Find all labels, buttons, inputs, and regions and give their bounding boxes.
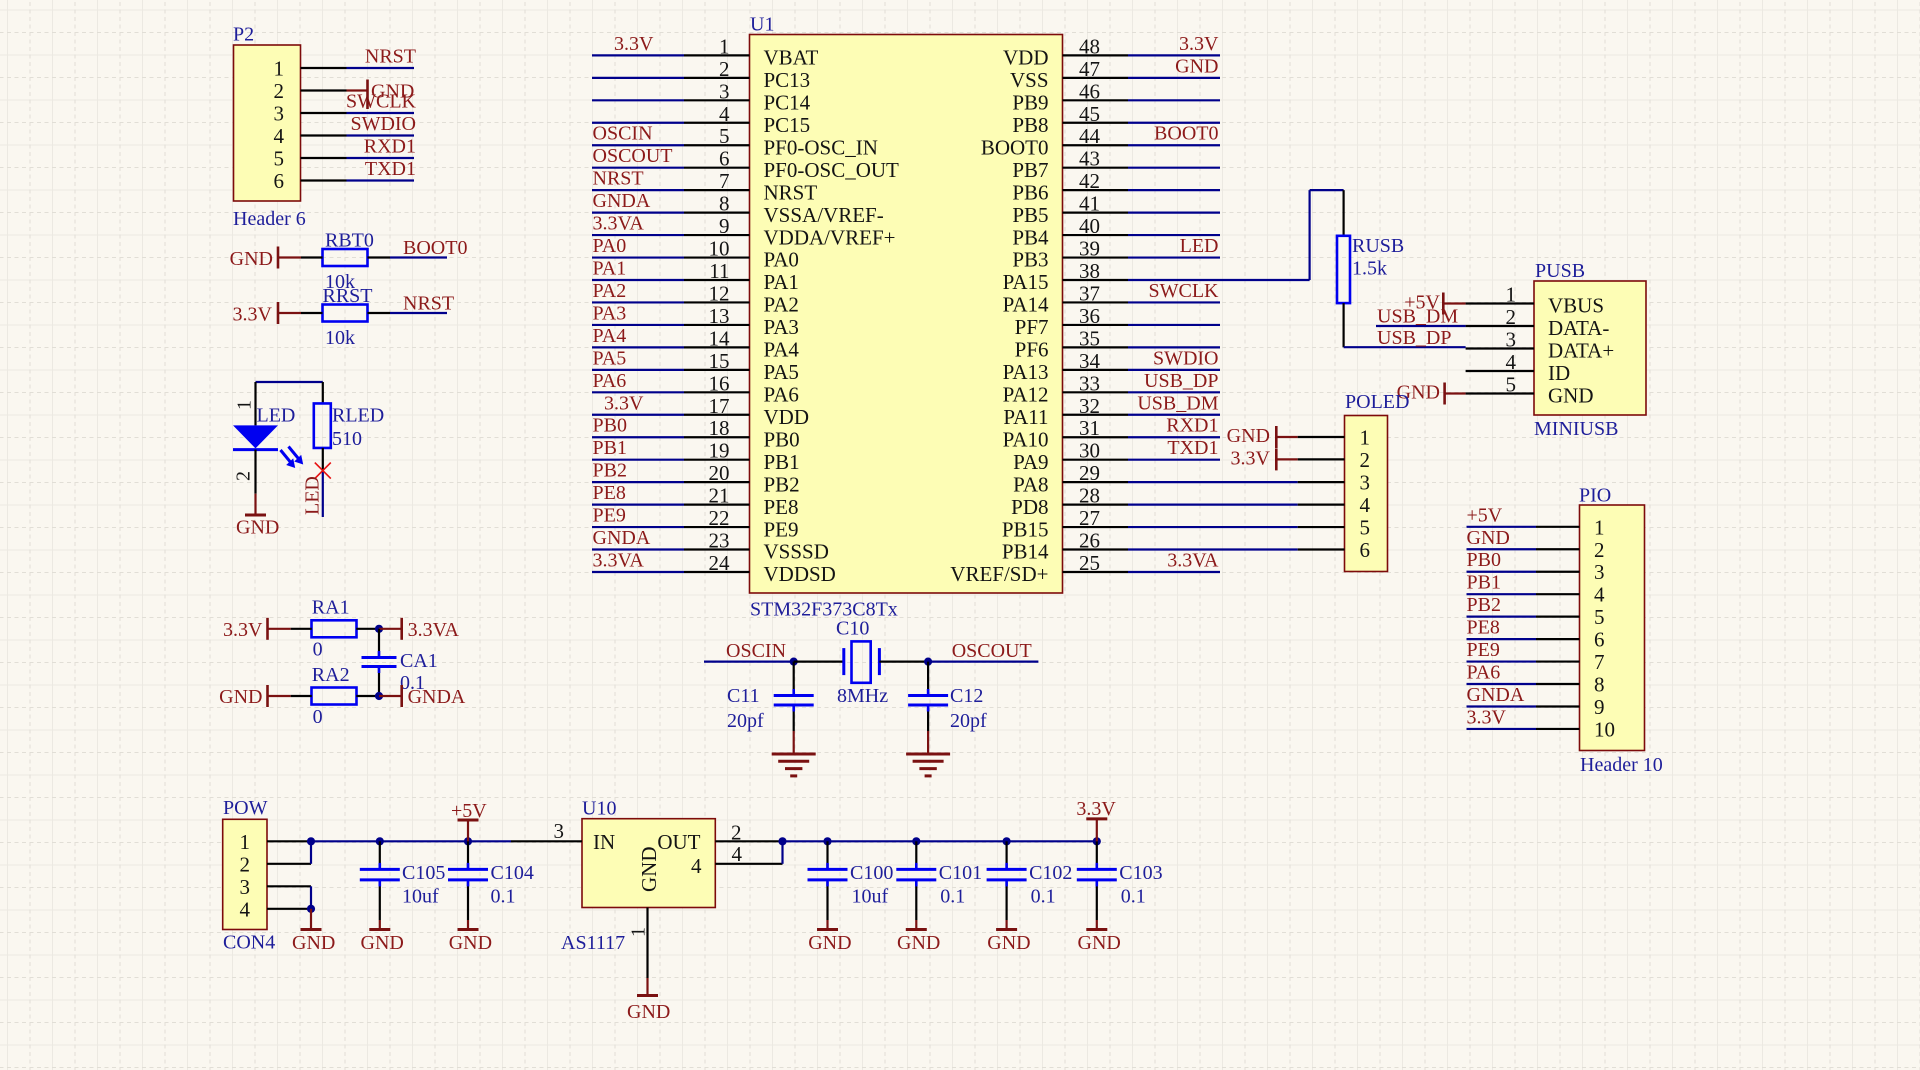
- svg-text:5: 5: [1360, 516, 1371, 540]
- power 3.3V at POLED pin 2: [1231, 448, 1345, 471]
- wire U1 pin 44 net BOOT0: [1063, 123, 1221, 146]
- wire OSCIN: [704, 640, 798, 666]
- wire PIO pin 7 net PE9: [1467, 639, 1580, 662]
- svg-text:PA1: PA1: [593, 258, 627, 280]
- wire U1 pin 7 net NRST: [592, 168, 750, 191]
- wire U1 pin 15 net PA5: [592, 347, 750, 370]
- svg-text:PA5: PA5: [593, 347, 627, 369]
- wire RUSB to USB_DP: [1344, 303, 1466, 347]
- wire U1 pin 4: [592, 122, 750, 124]
- svg-text:2: 2: [274, 79, 285, 103]
- capacitor CA1 0.1: [362, 629, 438, 696]
- svg-text:PB1: PB1: [593, 437, 627, 459]
- power port GNDA: [402, 685, 466, 708]
- svg-text:VDD: VDD: [764, 405, 810, 429]
- wire U1 pin 6 net OSCOUT: [592, 145, 750, 168]
- svg-text:0: 0: [313, 706, 323, 728]
- svg-text:4: 4: [1594, 583, 1605, 607]
- wire U1 pin 24 net 3.3VA: [592, 549, 750, 572]
- svg-text:PE9: PE9: [593, 505, 626, 527]
- svg-text:20pf: 20pf: [950, 710, 987, 732]
- resistor RA1 0: [312, 597, 357, 661]
- svg-text:P2: P2: [233, 24, 254, 46]
- svg-text:RLED: RLED: [332, 405, 384, 427]
- resistor RRST 10k: [323, 285, 373, 349]
- svg-text:PA14: PA14: [1003, 293, 1049, 317]
- ground GND at C104: [449, 930, 492, 955]
- resistor RA2 0: [312, 664, 357, 728]
- svg-text:U10: U10: [582, 798, 616, 820]
- svg-text:3.3VA: 3.3VA: [408, 619, 460, 641]
- svg-text:C103: C103: [1119, 862, 1162, 884]
- ground GND at C101: [897, 930, 940, 955]
- svg-text:PB0: PB0: [593, 415, 627, 437]
- svg-text:BOOT0: BOOT0: [981, 135, 1049, 159]
- wire U1 pin 21 net PE8: [592, 482, 750, 505]
- wire U10 pin 4: [715, 837, 786, 866]
- mcu U1 STM32F373C8Tx body: [709, 14, 1101, 621]
- svg-text:PA0: PA0: [593, 235, 627, 257]
- svg-text:PB4: PB4: [1012, 225, 1049, 249]
- connector PUSB MINIUSB body: [1506, 260, 1647, 440]
- wire POW pins 1-2 to +5V rail: [267, 837, 511, 864]
- wire U1 pin 5 net OSCIN: [592, 123, 750, 146]
- svg-text:PE8: PE8: [1467, 617, 1500, 639]
- svg-text:VSS: VSS: [1010, 68, 1049, 92]
- wire U10 OUT pin 2: [715, 821, 781, 845]
- svg-text:PE9: PE9: [1467, 639, 1500, 661]
- svg-text:5: 5: [274, 147, 285, 171]
- capacitor C11 20pf: [727, 662, 814, 753]
- svg-text:C11: C11: [727, 685, 760, 707]
- connector PIO (Header 10) body: [1579, 485, 1663, 777]
- svg-text:PA10: PA10: [1003, 427, 1049, 451]
- wire U1 pin 11 net PA1: [592, 258, 750, 281]
- svg-text:3.3V: 3.3V: [1231, 448, 1271, 470]
- svg-text:NRST: NRST: [764, 180, 818, 204]
- wire U1 pin 17 net 3.3V: [592, 392, 750, 415]
- svg-text:PA4: PA4: [593, 325, 627, 347]
- svg-text:0.1: 0.1: [1031, 886, 1056, 908]
- wire U1 pin 18 net PB0: [592, 415, 750, 438]
- svg-text:GND: GND: [371, 81, 414, 103]
- svg-text:9: 9: [1594, 695, 1605, 719]
- capacitor C101 0.1: [896, 837, 982, 929]
- wire PIO pin 9 net GNDA: [1467, 684, 1580, 707]
- ground GND at PUSB pin 5: [1397, 382, 1534, 405]
- svg-text:2: 2: [240, 852, 251, 876]
- svg-text:GND: GND: [230, 248, 273, 270]
- svg-text:PB3: PB3: [1012, 248, 1048, 272]
- svg-text:PF6: PF6: [1015, 338, 1049, 362]
- svg-text:VSSA/VREF-: VSSA/VREF-: [764, 203, 884, 227]
- svg-text:PB14: PB14: [1002, 540, 1049, 564]
- svg-text:GNDA: GNDA: [593, 527, 651, 549]
- ground GND at U10 pin 1: [627, 908, 670, 1024]
- ground GND at POLED pin 1: [1227, 425, 1345, 448]
- svg-text:PB2: PB2: [1467, 594, 1501, 616]
- wire P2 pin 1 net NRST: [301, 46, 417, 69]
- svg-text:PA0: PA0: [764, 248, 799, 272]
- svg-text:PE8: PE8: [764, 495, 799, 519]
- wire PIO pin 5 net PB2: [1467, 594, 1580, 617]
- svg-text:VDDSD: VDDSD: [764, 562, 836, 586]
- svg-text:GND: GND: [361, 932, 404, 954]
- wire U1 pin 16 net PA6: [592, 370, 750, 393]
- svg-text:VDD: VDD: [1003, 46, 1049, 70]
- svg-text:PB2: PB2: [764, 472, 800, 496]
- svg-text:2: 2: [233, 471, 255, 481]
- svg-text:SWDIO: SWDIO: [1153, 347, 1219, 369]
- svg-text:NRST: NRST: [365, 46, 416, 68]
- wire USB_DM to PUSB pin 2: [1376, 305, 1534, 327]
- svg-text:C102: C102: [1029, 862, 1072, 884]
- svg-text:RA2: RA2: [312, 664, 350, 686]
- svg-text:3: 3: [240, 875, 251, 899]
- svg-text:OSCOUT: OSCOUT: [593, 145, 673, 167]
- ground GND on P2 pin 2: [301, 80, 415, 110]
- svg-text:ID: ID: [1548, 361, 1570, 385]
- svg-text:3: 3: [1360, 471, 1371, 495]
- svg-text:PA2: PA2: [593, 280, 627, 302]
- svg-text:PA1: PA1: [764, 270, 799, 294]
- svg-text:GND: GND: [236, 517, 279, 539]
- wire U1 pin 20 net PB2: [592, 460, 750, 483]
- wire U1 pin 42: [1063, 189, 1221, 191]
- svg-text:10uf: 10uf: [402, 886, 439, 908]
- svg-text:POW: POW: [223, 797, 268, 819]
- svg-text:RXD1: RXD1: [1166, 415, 1218, 437]
- capacitor C104 0.1: [448, 837, 534, 929]
- svg-text:PC13: PC13: [764, 68, 811, 92]
- svg-text:VSSSD: VSSSD: [764, 540, 829, 564]
- svg-text:3: 3: [1594, 560, 1605, 584]
- pin PUSB 4 ID stub: [1466, 370, 1534, 372]
- svg-text:LED: LED: [257, 405, 296, 427]
- wire LED top loop: [256, 382, 323, 425]
- svg-text:1: 1: [1594, 515, 1605, 539]
- svg-text:PC14: PC14: [764, 91, 811, 115]
- svg-text:10uf: 10uf: [852, 886, 889, 908]
- wire OSCOUT: [924, 640, 1038, 666]
- wire RLED to net LED with no-ERC mark: [302, 448, 331, 517]
- svg-text:0.1: 0.1: [491, 886, 516, 908]
- wire U1 pin 1 net 3.3V: [592, 33, 750, 56]
- svg-text:PB2: PB2: [593, 460, 627, 482]
- wire U1 pin 2: [592, 77, 750, 79]
- power +5V at C104: [451, 800, 487, 841]
- power 3.3V at C103: [1076, 798, 1116, 841]
- svg-text:PIO: PIO: [1579, 485, 1611, 507]
- svg-text:2: 2: [1594, 538, 1605, 562]
- svg-text:3.3V: 3.3V: [604, 392, 644, 414]
- svg-text:PA6: PA6: [1467, 662, 1501, 684]
- svg-text:OSCIN: OSCIN: [726, 640, 786, 662]
- power +5V at PUSB pin 1: [1404, 292, 1534, 315]
- svg-text:RBT0: RBT0: [325, 230, 374, 252]
- svg-text:C10: C10: [836, 618, 869, 640]
- wire PIO pin 10 net 3.3V: [1467, 706, 1580, 729]
- svg-text:GND: GND: [449, 932, 492, 954]
- wire PIO pin 4 net PB1: [1467, 572, 1580, 595]
- wire U1 pin 23 net GNDA: [592, 527, 750, 550]
- svg-text:GND: GND: [627, 1001, 670, 1023]
- svg-text:1: 1: [1360, 426, 1371, 450]
- svg-text:NRST: NRST: [593, 168, 644, 190]
- ground GND at RA2: [219, 685, 291, 708]
- svg-text:8MHz: 8MHz: [837, 685, 888, 707]
- svg-text:GND: GND: [1548, 384, 1594, 408]
- wire U1 pin 48 net 3.3V: [1063, 33, 1221, 56]
- regulator U10 AS1117 body: [561, 798, 715, 955]
- svg-text:USB_DP: USB_DP: [1377, 327, 1451, 349]
- wire RBT0 to BOOT0: [301, 256, 447, 258]
- capacitor C105 10uf: [360, 837, 446, 929]
- svg-text:PUSB: PUSB: [1535, 260, 1585, 282]
- wire P2 pin 4 net SWDIO: [301, 113, 417, 136]
- svg-text:4: 4: [732, 842, 743, 866]
- svg-text:PB0: PB0: [1467, 549, 1501, 571]
- wire 3.3V output rail: [783, 840, 1097, 842]
- svg-text:GND: GND: [1467, 527, 1510, 549]
- svg-text:IN: IN: [593, 830, 615, 854]
- svg-text:5: 5: [1594, 605, 1605, 629]
- wire U1 pin 43: [1063, 167, 1221, 169]
- svg-text:GNDA: GNDA: [408, 686, 466, 708]
- power port 3.3VA: [402, 618, 460, 641]
- wire U1 pin 36: [1063, 324, 1221, 326]
- ground GND at RBT0: [230, 247, 301, 271]
- wire U1 pin 30 net TXD1: [1063, 437, 1221, 460]
- svg-text:CA1: CA1: [400, 650, 438, 672]
- svg-text:DATA-: DATA-: [1548, 316, 1609, 340]
- ground GND at LED cathode: [236, 450, 279, 539]
- connector POW CON4 body: [223, 797, 276, 954]
- connector P2 (Header 6): [233, 24, 306, 231]
- wire U1 pin 25 net 3.3VA: [1063, 549, 1221, 572]
- svg-text:PA9: PA9: [1013, 450, 1048, 474]
- svg-text:C104: C104: [491, 862, 534, 884]
- svg-text:3: 3: [554, 819, 565, 843]
- ground GND at C103: [1078, 930, 1121, 955]
- svg-text:7: 7: [1594, 650, 1605, 674]
- svg-text:STM32F373C8Tx: STM32F373C8Tx: [750, 599, 898, 621]
- wire U1 pin 33 net USB_DP: [1063, 370, 1221, 393]
- svg-text:PA3: PA3: [764, 315, 799, 339]
- svg-text:20pf: 20pf: [727, 710, 764, 732]
- svg-text:4: 4: [1360, 493, 1371, 517]
- svg-text:+5V: +5V: [1467, 504, 1503, 526]
- wire U1 pin 31 net RXD1: [1063, 415, 1221, 438]
- wire U1 pin 46: [1063, 99, 1221, 101]
- svg-text:GNDA: GNDA: [593, 190, 651, 212]
- svg-text:GND: GND: [897, 932, 940, 954]
- svg-text:2: 2: [731, 821, 742, 845]
- connector POLED body: [1345, 391, 1410, 572]
- svg-text:PB5: PB5: [1012, 203, 1048, 227]
- svg-text:PA15: PA15: [1003, 270, 1049, 294]
- wire PIO pin 6 net PE8: [1467, 617, 1580, 640]
- svg-text:3.3V: 3.3V: [614, 33, 654, 55]
- wire U1 pin 22 net PE9: [592, 505, 750, 528]
- svg-text:VBUS: VBUS: [1548, 294, 1604, 318]
- svg-text:LED: LED: [302, 476, 324, 515]
- svg-text:RUSB: RUSB: [1352, 235, 1404, 257]
- wire RA1 to 3.3VA: [291, 625, 402, 633]
- svg-text:TXD1: TXD1: [365, 158, 416, 180]
- svg-text:1.5k: 1.5k: [1352, 258, 1387, 280]
- svg-text:4: 4: [274, 124, 285, 148]
- svg-text:3.3VA: 3.3VA: [1167, 549, 1219, 571]
- wire U1 pin 35: [1063, 346, 1221, 348]
- wire U1 pin 41: [1063, 212, 1221, 214]
- svg-text:GND: GND: [1078, 932, 1121, 954]
- wire U1 pin 32 net USB_DM: [1063, 392, 1221, 415]
- svg-text:NRST: NRST: [403, 293, 454, 315]
- wire U1 pin 19 net PB1: [592, 437, 750, 460]
- svg-text:1: 1: [628, 927, 650, 937]
- svg-text:1: 1: [234, 400, 256, 410]
- svg-text:PB1: PB1: [1467, 572, 1501, 594]
- capacitor C12 20pf: [908, 662, 987, 753]
- svg-text:TXD1: TXD1: [1167, 437, 1218, 459]
- svg-text:PB9: PB9: [1012, 91, 1048, 115]
- svg-text:4: 4: [240, 897, 251, 921]
- svg-text:10k: 10k: [325, 327, 355, 349]
- svg-text:VBAT: VBAT: [764, 46, 819, 70]
- wire U1 pin 9 net 3.3VA: [592, 213, 750, 236]
- svg-text:PF0-OSC_OUT: PF0-OSC_OUT: [764, 158, 900, 182]
- wire P2 pin 6 net TXD1: [301, 158, 417, 181]
- svg-text:SWCLK: SWCLK: [1149, 280, 1220, 302]
- wire PIO pin 2 net GND: [1467, 527, 1580, 550]
- wire U1 pin 38 to RUSB: [1310, 190, 1344, 280]
- wire U1 pin 12 net PA2: [592, 280, 750, 303]
- power 3.3V at RRST: [233, 302, 301, 326]
- svg-text:PE9: PE9: [764, 517, 799, 541]
- svg-text:2: 2: [1360, 448, 1371, 472]
- svg-text:PA4: PA4: [764, 338, 800, 362]
- svg-text:PF0-OSC_IN: PF0-OSC_IN: [764, 135, 878, 159]
- svg-text:BOOT0: BOOT0: [403, 237, 467, 259]
- ground GND at C102: [987, 930, 1030, 955]
- svg-text:PA6: PA6: [593, 370, 627, 392]
- capacitor C100 10uf: [808, 837, 894, 929]
- wire RRST to NRST: [301, 312, 447, 314]
- power 3.3V at RA1: [223, 618, 291, 641]
- svg-text:C101: C101: [939, 862, 982, 884]
- svg-text:VDDA/VREF+: VDDA/VREF+: [764, 225, 896, 249]
- svg-text:PA13: PA13: [1003, 360, 1049, 384]
- svg-text:SWDIO: SWDIO: [350, 113, 416, 135]
- wire RA2 to GNDA: [291, 692, 402, 700]
- wire PIO pin 1 net +5V: [1467, 504, 1580, 527]
- svg-text:PA8: PA8: [1013, 472, 1048, 496]
- ground GND at POW: [292, 909, 335, 954]
- svg-text:6: 6: [274, 169, 285, 193]
- svg-text:USB_DM: USB_DM: [1377, 305, 1458, 327]
- resistor RLED 510: [314, 403, 384, 450]
- svg-text:3.3VA: 3.3VA: [593, 549, 645, 571]
- svg-text:PB7: PB7: [1012, 158, 1048, 182]
- earth ground at C11: [772, 754, 816, 776]
- earth ground at C12: [906, 754, 950, 776]
- wire U1 pin 10 net PA0: [592, 235, 750, 258]
- svg-text:GND: GND: [637, 847, 661, 893]
- wire U1 pin 27 to POLED pin 5: [1063, 526, 1345, 528]
- svg-text:3.3VA: 3.3VA: [593, 213, 645, 235]
- wire U1 pin 34 net SWDIO: [1063, 347, 1221, 370]
- svg-text:Header 6: Header 6: [233, 208, 306, 230]
- svg-text:0.1: 0.1: [940, 886, 965, 908]
- svg-text:PB6: PB6: [1012, 180, 1048, 204]
- svg-text:0.1: 0.1: [1121, 886, 1146, 908]
- svg-text:GND: GND: [987, 932, 1030, 954]
- wire +5V rail into U10 IN pin 3: [511, 819, 582, 843]
- svg-text:4: 4: [691, 854, 702, 878]
- wire U1 pin 45: [1063, 122, 1221, 124]
- ground GND at C100: [808, 930, 851, 955]
- capacitor C103 0.1: [1077, 837, 1163, 929]
- svg-text:MINIUSB: MINIUSB: [1534, 418, 1618, 440]
- svg-text:GND: GND: [219, 686, 262, 708]
- svg-text:PA12: PA12: [1003, 383, 1049, 407]
- svg-text:OSCOUT: OSCOUT: [952, 640, 1032, 662]
- svg-text:PC15: PC15: [764, 113, 811, 137]
- svg-text:C12: C12: [950, 685, 983, 707]
- svg-text:C100: C100: [850, 862, 893, 884]
- svg-text:8: 8: [1594, 673, 1605, 697]
- svg-text:1: 1: [240, 830, 251, 854]
- diode LED (D1): [233, 400, 304, 481]
- svg-text:RA1: RA1: [312, 597, 350, 619]
- wire U1 pin 47 net GND: [1063, 55, 1221, 78]
- wire U1 pin 14 net PA4: [592, 325, 750, 348]
- svg-text:3.3V: 3.3V: [1467, 706, 1507, 728]
- svg-text:PA5: PA5: [764, 360, 799, 384]
- svg-text:6: 6: [1360, 538, 1371, 562]
- svg-text:OSCIN: OSCIN: [593, 123, 653, 145]
- svg-text:510: 510: [332, 428, 362, 450]
- wire POW pins 3-4 to ground: [267, 886, 315, 913]
- svg-text:PB1: PB1: [764, 450, 800, 474]
- svg-text:RXD1: RXD1: [364, 136, 416, 158]
- svg-text:AS1117: AS1117: [561, 932, 625, 954]
- svg-text:GND: GND: [1175, 55, 1218, 77]
- svg-text:POLED: POLED: [1345, 391, 1409, 413]
- svg-text:3.3V: 3.3V: [233, 304, 273, 326]
- wire U1 pin 26 to POLED pin 6: [1063, 548, 1345, 550]
- svg-text:Header 10: Header 10: [1580, 754, 1663, 776]
- svg-text:RRST: RRST: [323, 285, 373, 307]
- svg-text:USB_DP: USB_DP: [1144, 370, 1218, 392]
- svg-text:GND: GND: [808, 932, 851, 954]
- svg-text:GNDA: GNDA: [1467, 684, 1525, 706]
- svg-text:PD8: PD8: [1011, 495, 1048, 519]
- wire P2 pin 3 net SWCLK: [301, 91, 417, 114]
- svg-text:PA3: PA3: [593, 302, 627, 324]
- svg-text:0: 0: [313, 639, 323, 661]
- wire P2 pin 5 net RXD1: [301, 136, 417, 159]
- wire PIO pin 8 net PA6: [1467, 662, 1580, 685]
- svg-text:PF7: PF7: [1015, 315, 1049, 339]
- ground GND at C105: [361, 930, 404, 955]
- svg-text:1: 1: [274, 57, 285, 81]
- svg-text:10: 10: [1594, 717, 1615, 741]
- svg-text:3.3V: 3.3V: [223, 619, 263, 641]
- wire PIO pin 3 net PB0: [1467, 549, 1580, 572]
- svg-text:PB8: PB8: [1012, 113, 1048, 137]
